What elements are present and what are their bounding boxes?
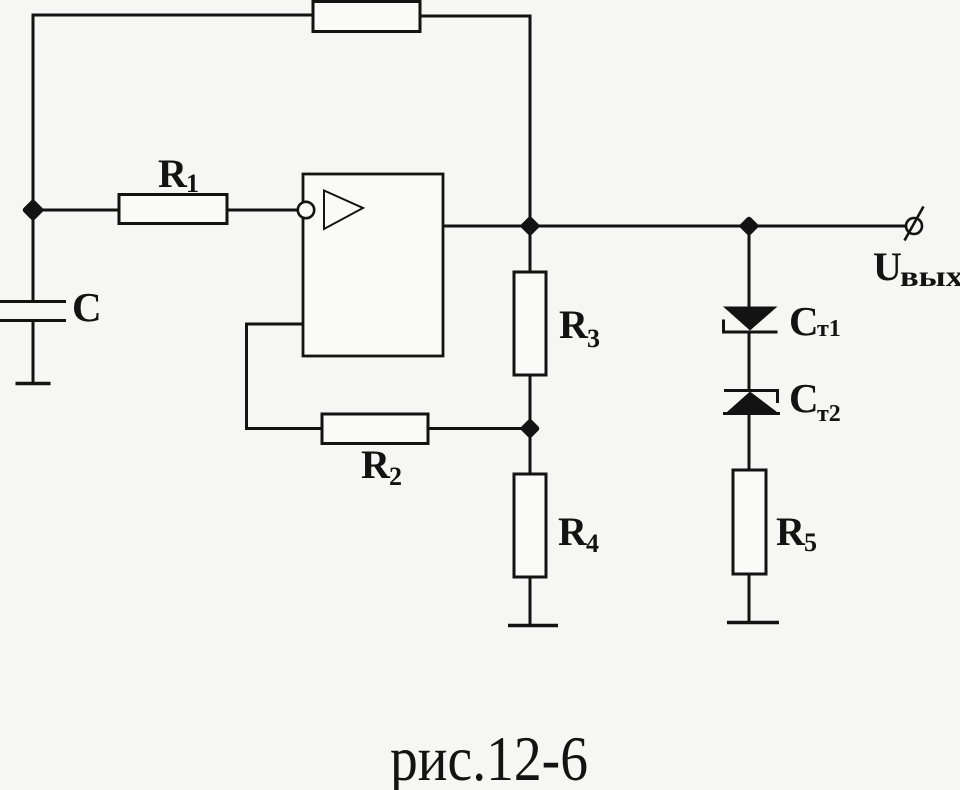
wire: feedback from op-amp lower input, left and down to R2 [247, 324, 323, 429]
wire: node A to R1 [33, 209, 119, 212]
svg-text:R: R [776, 509, 806, 554]
op-amp inverting input circle [298, 202, 314, 218]
wire: top-left vertical + top horizontal to feedback resistor [33, 15, 313, 210]
svg-text:2: 2 [389, 462, 402, 491]
wire: R2 right to node B [428, 427, 530, 430]
resistor R2 [322, 414, 428, 444]
wire: R3 to R4 through node B [529, 375, 532, 474]
wire: R4 to ground [529, 577, 532, 625]
svg-text:R: R [158, 151, 188, 196]
node D (zener branch junction on bus) [743, 220, 756, 233]
node A (junction left, R1/C) [26, 203, 41, 218]
zener diode CT1 (cathode down) [723, 307, 778, 331]
wire: capacitor to ground [32, 321, 35, 383]
ground (below R5) [727, 621, 779, 625]
svg-text:3: 3 [587, 324, 600, 353]
wire: node D down to zener CT1 [748, 226, 751, 307]
op-amp amplifier triangle symbol [324, 191, 363, 230]
svg-text:т1: т1 [817, 316, 841, 342]
ground (below R4) [508, 624, 558, 628]
zener diode CT2 (cathode up) [724, 391, 779, 404]
capacitor C (plates) [0, 302, 66, 321]
svg-text:5: 5 [804, 528, 817, 557]
resistor R1 [119, 195, 227, 224]
op-amp U1 (rectangle body) [303, 174, 443, 356]
svg-text:т2: т2 [817, 401, 841, 427]
svg-text:рис.12-6: рис.12-6 [390, 724, 588, 790]
wire: R5 to ground [748, 574, 751, 622]
output terminal (circle with slash) [906, 218, 922, 234]
svg-text:4: 4 [586, 529, 599, 558]
svg-text:R: R [558, 509, 588, 554]
resistor R4 [514, 474, 546, 577]
svg-text:R: R [361, 442, 391, 487]
resistor R3 [514, 272, 546, 375]
wire: R1 to op-amp input [227, 209, 298, 212]
svg-text:C: C [72, 284, 102, 330]
wire: node A down to capacitor [32, 210, 35, 301]
resistor R5 [733, 470, 766, 574]
svg-text:C: C [789, 375, 819, 421]
svg-text:C: C [789, 298, 819, 344]
svg-text:1: 1 [186, 169, 199, 198]
wire: feedback resistor right to top-right corner, down to output node [420, 16, 530, 272]
node B (R2/R3/R4 junction) [524, 422, 537, 435]
wire: CT2 to R5 [748, 413, 751, 470]
ground (below capacitor) [16, 382, 51, 386]
wire: CT1 to CT2 [748, 332, 751, 390]
node C (op-amp output junction) [524, 220, 537, 233]
svg-text:U: U [873, 244, 902, 289]
svg-text:вых: вых [900, 260, 960, 293]
resistor Rfb (top feedback resistor) [313, 2, 420, 32]
wire: output bus from op-amp to output terminal [443, 225, 906, 228]
svg-text:R: R [559, 302, 589, 347]
